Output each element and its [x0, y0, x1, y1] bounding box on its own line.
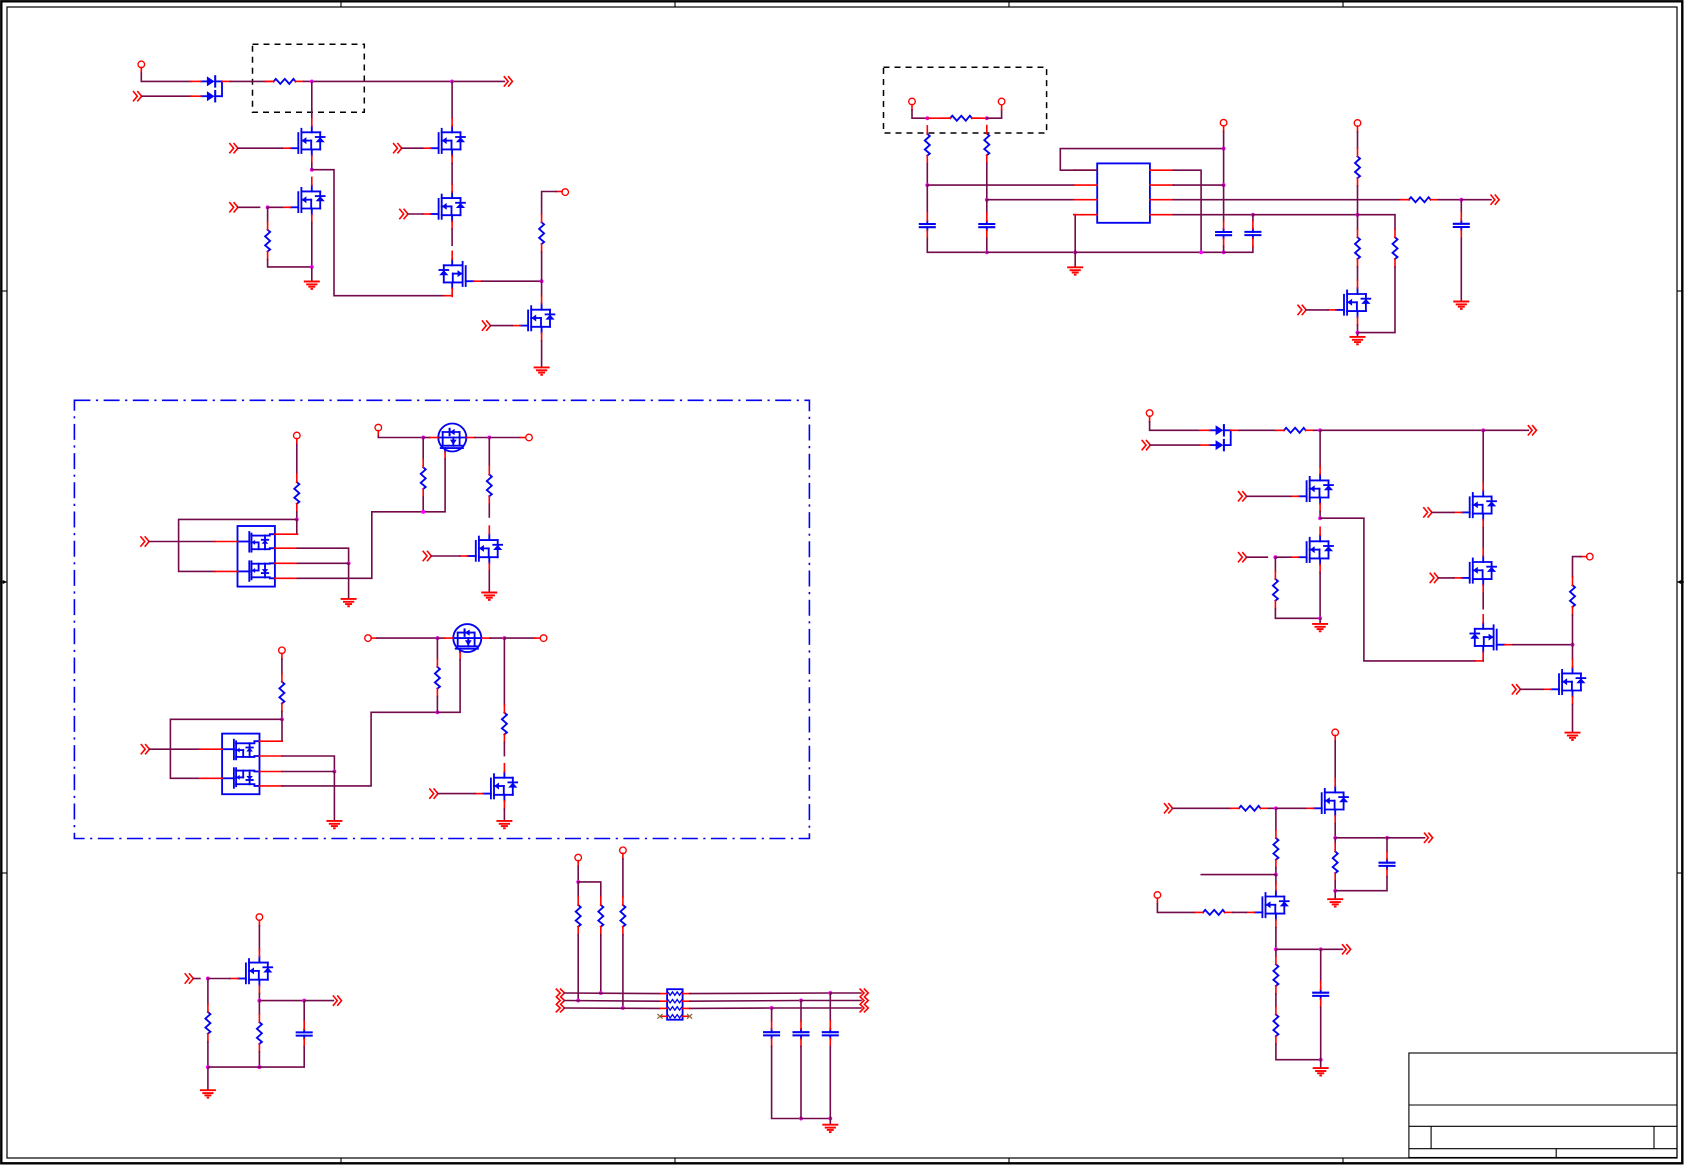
port P7 [365, 635, 372, 642]
junction J46 [332, 770, 336, 774]
wire Q3 to Q4 [451, 163, 453, 184]
wire P4 to J7 [378, 436, 423, 437]
wire IN3 to D4 [1150, 444, 1199, 446]
wire J29 to J30 [1335, 837, 1387, 839]
wire J20 to Q13 drain [1319, 430, 1321, 467]
wire P19 to R27 [1357, 132, 1359, 149]
pin lead [1581, 556, 1587, 558]
wire pin1 to J38 [1060, 149, 1223, 171]
junction J28 [1319, 1058, 1323, 1062]
wire J50 to C4 [829, 993, 831, 1021]
wire Q4 to Q5 [451, 229, 453, 245]
ground GND10 [200, 1090, 216, 1097]
wire P12 to D3 [1150, 422, 1200, 431]
diode D4 [1200, 440, 1231, 450]
transistor Q8 (N-MOSFET) [460, 526, 503, 571]
wire D3 to R15 [1239, 429, 1276, 431]
wire J41b to J41 [1253, 214, 1358, 216]
transistor Q9 (circled N-MOSFET) [445, 624, 491, 660]
wire J15 to ground [207, 1067, 209, 1089]
wire G15 to Q15 gate [1432, 511, 1454, 513]
off-page connector OUT4 [1528, 426, 1536, 435]
junction J7 [421, 436, 425, 440]
wire R27 to J41 [1357, 186, 1359, 215]
wire G4 to Q4 gate [408, 213, 423, 215]
wire G13 to Q13 gate [1247, 495, 1291, 497]
wire C3 to bottom bus [800, 1047, 802, 1119]
wire U3 pin3 right [282, 771, 334, 773]
ground GND14 [1313, 1068, 1329, 1075]
off-page connector OUT1 [504, 77, 512, 86]
junction J8 [487, 436, 491, 440]
wire J26 to R20 [1275, 949, 1277, 956]
wire J35 to U1 pin3 [987, 199, 1074, 201]
junction J47 [576, 999, 580, 1003]
wire G10 to Q10 gate [438, 793, 475, 795]
resistor R1 [266, 79, 304, 84]
wire Y2 to BUSR [801, 1000, 861, 1002]
transistor Q13 (N-MOSFET) [1291, 466, 1334, 511]
wire J20 to J21 [1320, 429, 1483, 431]
port P19 [1354, 120, 1361, 127]
wire U2 pin4 right [297, 512, 423, 579]
pin lead [1149, 416, 1151, 422]
junction J2 [450, 79, 454, 83]
wire P13 to R16 [1573, 557, 1581, 578]
resistor R17 [1231, 806, 1269, 811]
wire G12 to Q12 gate [1306, 309, 1328, 311]
resistor R18 [1273, 830, 1278, 868]
resistor network RN1 [660, 989, 690, 1020]
wire P7 to J11 [377, 637, 437, 639]
transistor Q14 (N-MOSFET) [1291, 527, 1334, 572]
wire IN2 to D2 [142, 95, 191, 97]
wire U1 pin8 down [1173, 170, 1201, 252]
off-page connector G16 [1430, 573, 1438, 582]
port P1 [138, 61, 145, 68]
off-page connector IN3 [1142, 441, 1150, 450]
wire Q6 source to ground [541, 341, 543, 366]
wire bus Y3 left [565, 1007, 660, 1009]
resistor R16 [1570, 577, 1575, 615]
junction J29 [1333, 836, 1337, 840]
ground GND8 [326, 821, 342, 828]
resistor R10 [205, 1004, 210, 1042]
off-page connector G2 [230, 203, 238, 212]
junction J12 [502, 636, 506, 640]
wire J10 left leg [170, 719, 282, 778]
diode D2 [191, 91, 222, 101]
pin lead [266, 80, 274, 82]
wire R11 to J18 [258, 1052, 260, 1067]
port P15 [1154, 892, 1161, 899]
wire G6 to Q6 gate [491, 325, 512, 327]
wire R6 to Q8 drain [488, 504, 490, 517]
pin lead [1475, 660, 1483, 662]
wire J5 to R2 [267, 207, 269, 222]
junction J20 [1318, 428, 1322, 432]
port P18 [1220, 119, 1227, 126]
wire J3 to Q5 source [312, 170, 444, 296]
title block [1409, 1053, 1677, 1158]
pin lead [140, 67, 142, 73]
wire Q20 source to J26 [1275, 928, 1277, 950]
junction J39 [1222, 183, 1226, 187]
wire Y3 to BUSR [772, 1007, 861, 1009]
off-page connector G8 [423, 551, 431, 560]
junction J6 [295, 517, 299, 521]
wire Q13 source to J22 [1319, 512, 1321, 519]
ground GND2 [534, 367, 550, 374]
wire J11 to Q9 drain [437, 637, 444, 639]
wire J27 to C5 [1320, 949, 1322, 981]
resistor R2 [265, 222, 270, 260]
ground GND11 [822, 1125, 838, 1132]
wire R5 to J9 [422, 497, 424, 512]
junction J21 [1481, 428, 1485, 432]
wire U3 pin2 right [282, 756, 334, 772]
pin lead [281, 653, 283, 659]
off-page connector G1 [230, 144, 238, 153]
wire P6 to R7 [281, 659, 283, 674]
off-page connector BUSR (3-wire) [860, 989, 868, 1012]
diode D1 [191, 76, 222, 86]
wire J34 to C7 [926, 185, 928, 213]
capacitor C1 [297, 1021, 312, 1047]
junction J22 [1318, 516, 1322, 520]
U1 pin 8 [1150, 169, 1173, 171]
wire J55 to R30 [1274, 557, 1276, 571]
U1 pin 1 [1074, 169, 1097, 171]
wire J30 to C6 [1386, 838, 1388, 852]
wire R1 to J1 [303, 80, 311, 82]
U1 pin 7 [1150, 184, 1173, 186]
U1 pin 2 [1074, 184, 1097, 186]
wire J41 to R28 [1357, 215, 1359, 230]
wire R2 to J4 [268, 260, 312, 267]
off-page connector G19 [1165, 804, 1173, 813]
wire G7 to U2 gate1 [149, 541, 215, 543]
resistor R4 [294, 474, 299, 512]
wire P16 down [912, 110, 927, 118]
pin lead [371, 637, 377, 639]
capacitor C11 [1454, 213, 1469, 239]
wire diode cathode join [1230, 430, 1232, 445]
ground GND1 [304, 282, 320, 289]
wire U2 pin3 right [297, 562, 348, 564]
wire C1 to bottom [259, 1047, 304, 1067]
junction J50 [828, 991, 832, 995]
transistor Q18 (N-MOSFET) [1543, 659, 1586, 704]
junction J40 [1222, 250, 1226, 254]
pin lead [222, 80, 230, 82]
resistor R20 [1273, 956, 1278, 994]
wire R30 to J56 [1275, 609, 1320, 619]
resistor R8 [435, 659, 440, 697]
wire Q16 to Q17 [1482, 593, 1484, 609]
transistor Q16 (N-MOSFET) [1454, 548, 1497, 593]
wire J43 to ground [1357, 333, 1359, 336]
ground GND4 [1453, 302, 1469, 309]
junction J44 [1199, 250, 1203, 254]
off-page connector BUSL (3-wire) [556, 989, 564, 1012]
junction J5 [266, 205, 270, 209]
wire J33 to P17 [987, 110, 1002, 118]
wire Q12 source to J43 [1357, 325, 1359, 333]
wire Q14 source to J56 [1319, 572, 1321, 618]
wire R15 to J20 [1314, 429, 1320, 431]
wire C2 to bottom bus [772, 1047, 801, 1119]
resistor R15 [1276, 428, 1314, 433]
wire R16 to J23 [1572, 615, 1574, 645]
wire J6 to U2 drain pin [296, 519, 299, 534]
junction J34 [925, 183, 929, 187]
wire C7 to bus [927, 238, 987, 252]
junction J17 [302, 999, 306, 1003]
ground GND12 [1312, 624, 1328, 631]
resistor R14 [620, 897, 625, 935]
junction J13 [435, 710, 439, 714]
wire J51 to C3 [800, 1001, 802, 1022]
wire J1 to Q1 drain [311, 81, 313, 118]
capacitor C4 [823, 1021, 838, 1047]
wire C5 to J28 [1320, 1007, 1322, 1060]
wire J18 to J15 [208, 1066, 260, 1068]
wire G2 to J5 [238, 206, 260, 208]
resistor R29 [1393, 229, 1398, 267]
resistor R21 [1273, 1007, 1278, 1045]
wire G9 to U3 gate1 [150, 748, 200, 750]
transistor Q12 (N-MOSFET) [1328, 280, 1371, 325]
off-page connector G14 [1239, 553, 1247, 562]
wire J21 to Q15 drain [1482, 430, 1484, 483]
off-page connector OUT6 [1343, 945, 1351, 954]
wire J6a to Q6 drain [541, 281, 543, 295]
pin lead [1231, 429, 1240, 431]
wire J8 to R6 [488, 438, 490, 467]
wire bus Y2 right [690, 1000, 801, 1003]
wire Q17 gate to J23 [1513, 644, 1573, 646]
dual MOSFET package U2 [215, 526, 297, 587]
border centre arrow right [1677, 580, 1684, 584]
wire P11 to R14 [622, 859, 624, 897]
junction J15 [206, 1065, 210, 1069]
transistor Q3 (N-MOSFET) [423, 118, 466, 163]
wire J56 to ground [1319, 618, 1321, 622]
border zone ticks bottom [341, 1158, 1343, 1164]
wire J7 to Q7 drain [423, 437, 430, 439]
wire Q7 gate down [423, 459, 445, 512]
wire J2 to OUT1 [452, 80, 504, 82]
wire C9 to J40 [1223, 246, 1225, 252]
port P10 [575, 854, 582, 861]
junction J19 [576, 880, 580, 884]
wire P3 to R4 [296, 445, 298, 475]
wire J25 to Q20 drain [1275, 875, 1277, 885]
pin lead [1223, 126, 1225, 132]
junction J18 [257, 1065, 261, 1069]
capacitor C5 [1313, 982, 1328, 1008]
wire J42 to C11 [1460, 200, 1462, 213]
transistor Q5 (N-MOSFET) [439, 251, 482, 296]
wire Q7 source to J8 [475, 437, 489, 439]
wire J45 to ground [348, 563, 350, 597]
wire J24 to R18 [1275, 808, 1277, 830]
pin lead [1276, 429, 1284, 431]
port P17 [998, 98, 1005, 105]
junction J42 [1459, 198, 1463, 202]
port P12 [1146, 410, 1153, 417]
wire J41b to C10 [1252, 215, 1254, 221]
IC U1 [1097, 163, 1150, 222]
resistor R30 [1273, 571, 1278, 609]
wire J53 to J54 [801, 1118, 830, 1120]
wire J11 to R8 [436, 638, 438, 659]
off-page connector G12 [1298, 305, 1306, 314]
ground GND7 [481, 593, 497, 600]
wire Q15 to Q16 [1482, 528, 1484, 548]
wire bus J40 to C10 column [1224, 246, 1253, 252]
U1 pin 6 [1150, 199, 1173, 201]
port P13 [1587, 553, 1594, 560]
wire stub left of J25 [1201, 874, 1276, 876]
dual MOSFET package U3 [200, 734, 282, 795]
junction J33 [985, 116, 989, 120]
transistor Q1 (N-MOSFET) [282, 118, 325, 163]
dashed highlight box (top-left) [253, 44, 365, 112]
wire J29 to R22 [1334, 838, 1336, 844]
off-page connector IN2 [134, 92, 142, 101]
junction J26 [1274, 947, 1278, 951]
wire J23 to Q18 drain [1572, 645, 1574, 660]
junction J35 [985, 198, 989, 202]
wire U1 pin5 line [1173, 214, 1253, 216]
transistor Q19 (N-MOSFET) [1306, 778, 1349, 823]
ground GND6 [341, 599, 357, 606]
wire C11 to ground [1460, 238, 1462, 300]
ground GND3 [1067, 267, 1083, 274]
border zone ticks left [1, 291, 7, 873]
wire U1 pin6 line [1173, 199, 1401, 201]
pin lead [520, 437, 526, 439]
junction J41 [1356, 213, 1360, 217]
wire J31 to ground [1334, 891, 1336, 898]
wire G3 to Q3 gate [402, 147, 423, 149]
junction J36 [985, 250, 989, 254]
wire R8 to J13 [436, 697, 438, 713]
wire Q5 source corner [451, 292, 453, 295]
wire J41 to R29 [1358, 215, 1396, 230]
pin lead [258, 920, 260, 926]
junction J54 [828, 1117, 832, 1121]
junction J11 [435, 636, 439, 640]
wire Q2 source to J4 [311, 223, 313, 267]
junction J24 [1274, 806, 1278, 810]
off-page connector G18 [1512, 685, 1520, 694]
port P9 [256, 914, 263, 921]
wire U1 pin7 to J39 [1173, 184, 1223, 186]
resistor R24 [925, 126, 930, 164]
wire R26 to J42 [1439, 199, 1462, 201]
wire J55 to Q14 gate [1275, 556, 1290, 558]
diode D3 [1200, 425, 1231, 435]
off-page connector G9 [141, 745, 149, 754]
junction J51 [799, 999, 803, 1003]
wire bus J36 to J37 [987, 251, 1075, 253]
capacitor C6 [1380, 852, 1395, 878]
transistor Q4 (N-MOSFET) [423, 184, 466, 229]
wire J1 to J2 [312, 80, 452, 82]
wire J37 to U1 pin4 [1074, 215, 1075, 253]
wire R21 to J28 [1276, 1044, 1321, 1060]
wire P15 to R19 [1157, 904, 1195, 913]
wire J16 to R11 [258, 1001, 260, 1015]
pin lead [972, 117, 987, 119]
wire U3 pin4 right [282, 712, 437, 786]
port P11 [620, 847, 627, 854]
wire P9 to Q11 drain [258, 926, 260, 951]
wire J5 to Q2 gate [268, 206, 283, 208]
pin lead [1156, 898, 1158, 904]
wire bus Y1 left [565, 992, 660, 995]
pin lead [1001, 105, 1003, 111]
off-page connector G15 [1424, 508, 1432, 517]
wire Q10 source to ground [503, 809, 505, 820]
transistor Q6 (N-MOSFET) [512, 296, 555, 341]
ground GND13 [1565, 733, 1581, 740]
wire R17 to J24 [1269, 807, 1276, 809]
wire Q5 gate to J6a [482, 280, 542, 282]
junction J30 [1385, 836, 1389, 840]
junction J38 [1222, 147, 1226, 151]
junction J23 [1571, 643, 1575, 647]
no-connect X left [657, 1014, 662, 1019]
junction J6a [540, 279, 544, 283]
port P8 [540, 635, 547, 642]
U1 pin 4 [1074, 214, 1097, 216]
wire R22 to J31 [1334, 881, 1336, 891]
wire R28 to Q12 drain [1357, 267, 1359, 280]
ground GND5 [1350, 337, 1366, 344]
wire G11 to J14 [193, 978, 200, 980]
pin lead [1357, 126, 1359, 132]
resistor R27 [1355, 148, 1360, 186]
pin lead [535, 637, 541, 639]
wire R14 to Y3 [622, 935, 624, 1008]
resistor R13 [598, 897, 603, 935]
junction J14 [206, 977, 210, 981]
wire G1 to Q1 gate [238, 147, 282, 149]
resistor R12 [576, 897, 581, 935]
wire G8 to Q8 gate [431, 555, 459, 557]
junction J3 [310, 168, 314, 172]
pin lead [622, 853, 624, 859]
capacitor C9 [1216, 221, 1231, 247]
wire G14 to J55 [1247, 556, 1268, 558]
junction J37 [1073, 250, 1077, 254]
wire J4 to ground [311, 267, 313, 280]
wire R10 to J15 [207, 1042, 209, 1067]
resistor R22 [1333, 844, 1338, 882]
junction J41b [1251, 213, 1255, 217]
wire Y1 to BUSR [830, 992, 861, 994]
junction J49 [621, 1006, 625, 1010]
port P6 [279, 647, 286, 654]
resistor R23 [942, 116, 980, 121]
wire R12 to Y2 [577, 935, 579, 1001]
wire C6 to J31 [1335, 877, 1387, 891]
wire R19 to Q20 gate [1233, 911, 1247, 913]
